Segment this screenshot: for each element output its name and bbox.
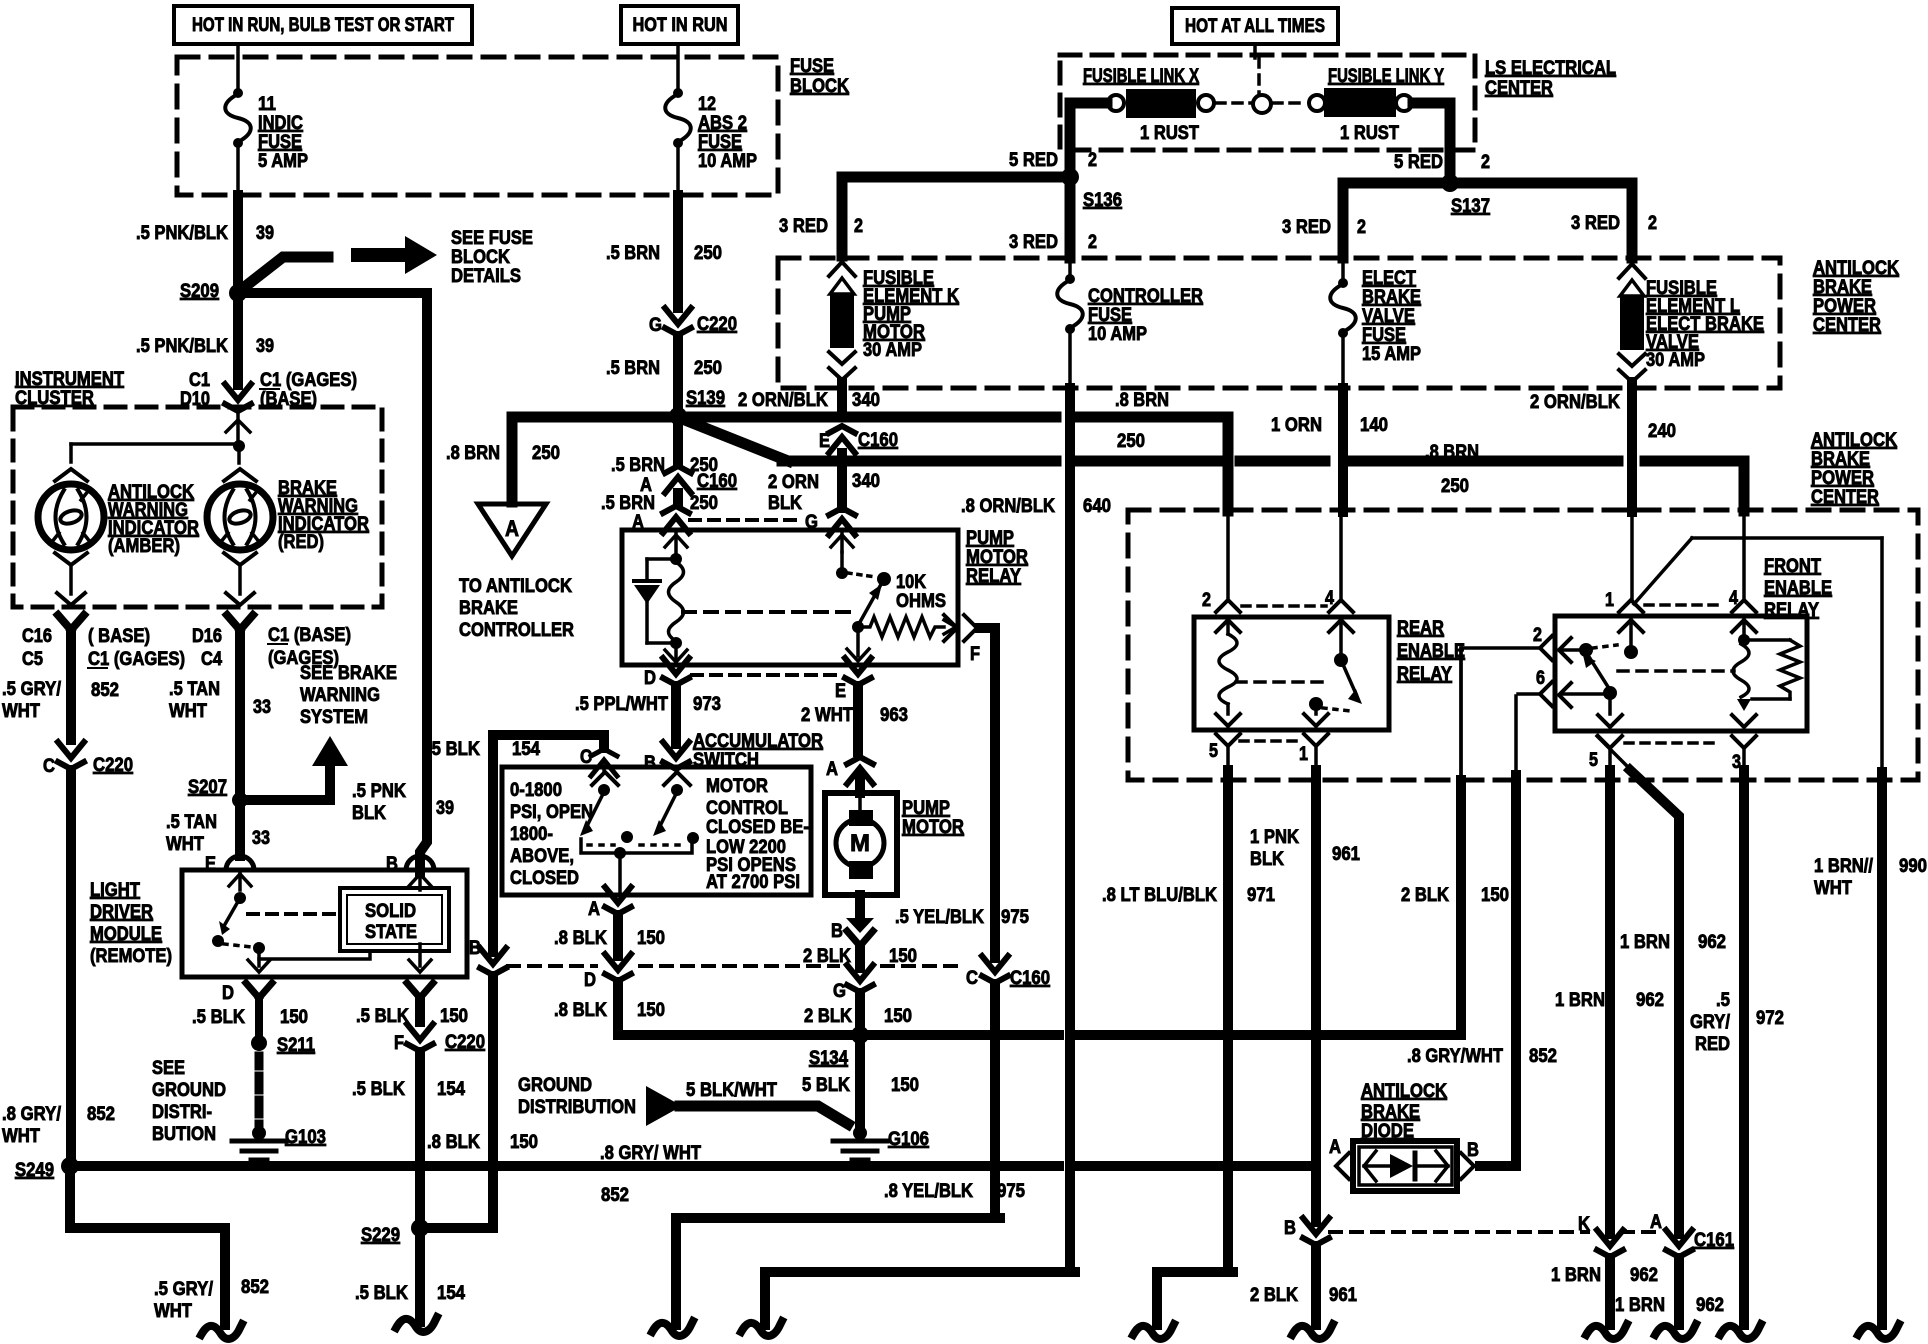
svg-text:2: 2 <box>1088 150 1097 171</box>
svg-text:1800-: 1800- <box>510 824 553 845</box>
rear relay pin 5 connector <box>1216 734 1240 746</box>
svg-text:E: E <box>819 431 830 452</box>
svg-text:M: M <box>850 830 870 857</box>
svg-text:C160: C160 <box>697 471 737 492</box>
svg-text:BRAKE: BRAKE <box>1362 287 1421 308</box>
svg-text:962: 962 <box>1630 1265 1658 1286</box>
svg-text:F: F <box>394 1033 404 1054</box>
rear relay pin 4 connector <box>1329 600 1353 612</box>
svg-text:962: 962 <box>1636 990 1664 1011</box>
dashed tie inside rear relay <box>1236 680 1330 684</box>
wire pin C into accumulator switch box <box>602 766 606 770</box>
svg-text:A: A <box>826 759 838 780</box>
diode connector A <box>1336 1153 1349 1179</box>
module pin B-side connector to wire 150 <box>407 983 433 998</box>
svg-text:WHT: WHT <box>166 834 204 855</box>
svg-text:G106: G106 <box>888 1129 929 1150</box>
svg-text:.5 BLK: .5 BLK <box>356 1006 409 1027</box>
svg-text:CENTER: CENTER <box>1813 315 1881 336</box>
LIGHT DRIVER MODULE box <box>182 870 467 977</box>
svg-text:FUSE: FUSE <box>1088 305 1132 326</box>
wire C1 feed split inside cluster <box>233 440 245 452</box>
wire 150 elbow up into right power center <box>1459 648 1463 782</box>
svg-text:3 RED: 3 RED <box>779 216 828 237</box>
svg-text:ABS 2: ABS 2 <box>698 113 747 134</box>
svg-text:A: A <box>632 512 644 533</box>
LS ELECTRICAL CENTER dashed box <box>1060 55 1475 150</box>
svg-text:B: B <box>1284 1218 1296 1239</box>
wire from HOT AT ALL TIMES into LS center <box>1253 44 1257 58</box>
svg-text:963: 963 <box>880 705 908 726</box>
svg-text:SWITCH: SWITCH <box>693 750 759 771</box>
svg-text:.5 PNK: .5 PNK <box>352 781 406 802</box>
rear relay pin 1 connector <box>1304 734 1328 746</box>
rear relay pin 2 connector <box>1216 600 1240 612</box>
svg-text:.8 GRY/: .8 GRY/ <box>2 1104 62 1125</box>
relay pin G sense branch with 10K OHMS potentiometer <box>840 534 844 552</box>
svg-text:ANTILOCK: ANTILOCK <box>1361 1081 1447 1102</box>
wire diagonal from S139 to .8 BRN 250 run <box>680 418 788 461</box>
wire C220-F to S229 (.5 BLK 154) <box>415 1052 425 1222</box>
svg-text:150: 150 <box>440 1006 468 1027</box>
svg-text:REAR: REAR <box>1397 618 1444 639</box>
svg-text:BRAKE: BRAKE <box>1813 277 1872 298</box>
wire S139 left to A triangle (.8 BRN 250) <box>512 417 671 502</box>
svg-text:154: 154 <box>437 1079 465 1100</box>
svg-text:250: 250 <box>690 493 718 514</box>
svg-text:990: 990 <box>1899 856 1927 877</box>
svg-text:.5 TAN: .5 TAN <box>166 812 217 833</box>
svg-text:1: 1 <box>1299 744 1308 765</box>
fusible element K PUMP MOTOR 30 AMP <box>829 262 855 276</box>
svg-text:975: 975 <box>997 1181 1025 1202</box>
svg-text:C16: C16 <box>22 626 52 647</box>
wire 39 from S209 elbow down to module pin B (.5 BLK) <box>420 298 427 872</box>
wire rear relay pin 5 down (1 PNK/BLK 971) <box>1226 746 1230 772</box>
wire 971 elbow to bottom hook <box>1157 1272 1233 1325</box>
svg-text:TO ANTILOCK: TO ANTILOCK <box>459 576 572 597</box>
svg-text:C220: C220 <box>93 755 133 776</box>
front relay pin 4 connector <box>1732 600 1756 612</box>
svg-text:6: 6 <box>1536 668 1545 689</box>
svg-text:2: 2 <box>1202 590 1211 611</box>
svg-text:SYSTEM: SYSTEM <box>300 707 368 728</box>
wire C160-E down to pump motor relay pin G (340) <box>837 453 847 508</box>
svg-text:.5 BLK: .5 BLK <box>352 1079 405 1100</box>
svg-text:BLOCK: BLOCK <box>790 76 849 97</box>
dashed tie pins D to E <box>692 673 840 677</box>
svg-text:RELAY: RELAY <box>1764 600 1819 621</box>
svg-text:2: 2 <box>1481 152 1490 173</box>
svg-text:2 WHT: 2 WHT <box>801 705 853 726</box>
motor symbol M <box>858 796 862 812</box>
off-page triangle A TO ANTILOCK BRAKE CONTROLLER <box>478 504 546 556</box>
accumulator pin B connector <box>663 742 689 758</box>
svg-text:250: 250 <box>1117 431 1145 452</box>
svg-text:C1 (GAGES): C1 (GAGES) <box>88 649 185 670</box>
brake warning indicator lamp (red) <box>224 469 256 481</box>
svg-text:C5: C5 <box>22 649 43 670</box>
antilock warning indicator lamp (amber) <box>55 469 87 481</box>
wire S137 right-down to fusible element L (3 RED 2) <box>1458 183 1632 258</box>
svg-text:VALVE: VALVE <box>1362 306 1415 327</box>
svg-text:C160: C160 <box>1010 968 1050 989</box>
svg-text:3 RED: 3 RED <box>1282 217 1331 238</box>
svg-text:C: C <box>966 968 978 989</box>
wire .8 GRY/WHT 852 long run S249 to diode A <box>79 1161 411 1171</box>
svg-text:S209: S209 <box>180 281 219 302</box>
fuse block dashed box <box>177 57 778 195</box>
wire S139 right along 2 ORN/BLK 340 to elbow <box>686 412 1056 423</box>
wire 990 down to bottom hook (1 BRN//WHT 990) <box>1877 772 1887 1325</box>
wire pin F to C160-C and down (975) <box>980 628 995 958</box>
svg-text:FUSE: FUSE <box>258 132 302 153</box>
svg-text:RED: RED <box>1695 1034 1730 1055</box>
wire pin D to S211 (.5 BLK 150) <box>255 999 263 1036</box>
svg-text:2: 2 <box>1533 625 1542 646</box>
arrow SEE FUSE BLOCK DETAILS <box>351 248 405 262</box>
wire S136 down to controller fuse (3 RED 2) <box>1065 184 1076 258</box>
wire C160-G to S134 (2 BLK 150) <box>855 993 865 1028</box>
svg-text:(REMOTE): (REMOTE) <box>90 946 172 967</box>
svg-text:S229: S229 <box>361 1225 400 1246</box>
svg-text:30 AMP: 30 AMP <box>863 340 922 361</box>
connector C1 into instrument cluster <box>225 384 251 400</box>
svg-text:4: 4 <box>1729 588 1738 609</box>
front relay coil and resistor <box>1732 620 1756 632</box>
svg-text:WHT: WHT <box>2 1126 40 1147</box>
svg-text:.5 YEL/BLK: .5 YEL/BLK <box>895 907 984 928</box>
svg-text:33: 33 <box>253 697 271 718</box>
connector D16/C4 below cluster <box>227 615 253 630</box>
svg-text:RELAY: RELAY <box>1397 664 1452 685</box>
svg-text:PSI, OPEN: PSI, OPEN <box>510 802 593 823</box>
svg-text:154: 154 <box>512 739 540 760</box>
svg-text:ANTILOCK: ANTILOCK <box>1811 430 1897 451</box>
svg-text:.5 TAN: .5 TAN <box>169 679 220 700</box>
svg-text:150: 150 <box>884 1006 912 1027</box>
wire LS center left output to S136 (5 RED 2) <box>1070 103 1107 170</box>
wire S249 jog to bottom hook (.5 GRY/WHT 852) <box>70 1173 225 1325</box>
svg-text:GRY/: GRY/ <box>1690 1012 1731 1033</box>
svg-text:1 RUST: 1 RUST <box>1340 123 1399 144</box>
svg-text:CONTROLLER: CONTROLLER <box>459 620 574 641</box>
svg-text:2: 2 <box>1088 232 1097 253</box>
svg-text:S139: S139 <box>686 388 725 409</box>
accumulator switch common bar to pin A <box>581 839 692 853</box>
wire 640 elbow to bottom hook <box>765 1272 1075 1325</box>
dashed tie relay pins A to G <box>690 518 800 522</box>
svg-text:852: 852 <box>91 680 119 701</box>
svg-text:140: 140 <box>1360 415 1388 436</box>
svg-text:.8 BLK: .8 BLK <box>554 1000 607 1021</box>
wire wiper down to pin E <box>856 630 860 656</box>
elect brake valve fuse 15 AMP <box>1341 258 1345 282</box>
svg-text:BRAKE: BRAKE <box>459 598 518 619</box>
svg-text:10K: 10K <box>896 572 926 593</box>
module switch internals <box>238 874 242 890</box>
svg-text:1 BRN: 1 BRN <box>1620 932 1670 953</box>
svg-text:D: D <box>222 983 234 1004</box>
svg-text:2 BLK: 2 BLK <box>804 1006 852 1027</box>
relay pin G connector <box>829 508 855 515</box>
svg-text:3 RED: 3 RED <box>1009 232 1058 253</box>
svg-text:.5 BLK: .5 BLK <box>427 739 480 760</box>
svg-text:LS ELECTRICAL: LS ELECTRICAL <box>1485 58 1616 79</box>
front relay pin 6 connector <box>1540 682 1552 706</box>
svg-text:.5 BRN: .5 BRN <box>606 358 660 379</box>
resistor 10K OHMS <box>864 617 944 637</box>
wire S134 ground run left portion (from accumulator A elbow) <box>618 1026 855 1035</box>
svg-text:E: E <box>835 681 846 702</box>
svg-text:250: 250 <box>694 243 722 264</box>
ANTILOCK BRAKE POWER CENTER dashed box (fuses) <box>778 258 1780 388</box>
svg-text:961: 961 <box>1329 1285 1357 1306</box>
wire pin A down (.8 BLK 150) <box>613 915 623 956</box>
wire S134 to ground G106 (5 BLK 150) <box>855 1042 865 1128</box>
svg-text:2 ORN/BLK: 2 ORN/BLK <box>1530 392 1620 413</box>
wire elect brake valve fuse output down (1 ORN 140) <box>1338 388 1348 512</box>
wire pump motor to pin B (.5 YEL/BLK 975) <box>855 895 865 920</box>
svg-text:SEE: SEE <box>152 1058 185 1079</box>
dashed tie to solid state block <box>248 912 338 916</box>
svg-text:ELECT: ELECT <box>1362 268 1416 289</box>
svg-text:971: 971 <box>1247 885 1275 906</box>
svg-text:ENABLE: ENABLE <box>1764 578 1832 599</box>
svg-text:PUMP: PUMP <box>902 798 950 819</box>
front relay pin 2 connector <box>1540 636 1552 660</box>
svg-text:5 RED: 5 RED <box>1394 152 1443 173</box>
rear relay coil branch <box>1216 620 1240 632</box>
svg-text:852: 852 <box>241 1277 269 1298</box>
front relay pin 1 connector <box>1619 600 1643 612</box>
svg-text:CONTROL: CONTROL <box>706 798 788 819</box>
svg-text:C1 (BASE): C1 (BASE) <box>268 625 351 646</box>
svg-text:C161: C161 <box>1694 1230 1734 1251</box>
svg-text:972: 972 <box>1756 1008 1784 1029</box>
thick dashed jog S207 to brake warning arrow <box>250 795 262 805</box>
svg-text:3 RED: 3 RED <box>1571 213 1620 234</box>
accumulator switch contact B <box>664 772 690 785</box>
wire module B-side down to F/C220 (.5 BLK 150) <box>415 998 425 1022</box>
svg-text:33: 33 <box>252 828 270 849</box>
diode connector B <box>1461 1153 1474 1179</box>
svg-text:.8 GRY/WHT: .8 GRY/WHT <box>1407 1046 1503 1067</box>
splice S137 <box>1441 174 1459 192</box>
svg-text:FUSE: FUSE <box>1362 325 1406 346</box>
dashed tie pins 5-1 <box>1240 739 1302 743</box>
svg-text:10 AMP: 10 AMP <box>1088 324 1147 345</box>
svg-text:BUTION: BUTION <box>152 1124 216 1145</box>
wire pin B to C160-G (2 BLK 150) <box>855 948 865 968</box>
dashed wire S211 to ground G103 <box>255 1056 264 1066</box>
wire .5 BLK 154 elbow to accumulator pin C <box>493 735 604 748</box>
wire C220-C to S249 (.8 GRY/WHT 852) <box>66 770 76 1158</box>
svg-text:SEE BRAKE: SEE BRAKE <box>300 663 397 684</box>
svg-text:BRAKE: BRAKE <box>1361 1102 1420 1123</box>
svg-text:FUSE: FUSE <box>790 56 834 77</box>
connector C160 pin C <box>982 956 1008 972</box>
svg-text:250: 250 <box>1441 476 1469 497</box>
wire C160-D to S134 line (.8 BLK 150) <box>613 982 623 1030</box>
relay diode <box>647 557 676 561</box>
svg-text:852: 852 <box>601 1185 629 1206</box>
wire 154 branch from accumulator C elbow down to S229 <box>488 740 498 952</box>
wire pin D to accumulator switch pin B (.5 PPL/WHT 973) <box>671 686 681 744</box>
accumulator switch contact C <box>592 772 618 785</box>
svg-text:39: 39 <box>436 798 454 819</box>
svg-text:961: 961 <box>1332 844 1360 865</box>
dashed connector line C160 (B-D-G-C) <box>508 964 596 968</box>
svg-text:12: 12 <box>698 94 716 115</box>
wire C16 to C220 (.5 GRY/WHT 852) <box>66 630 76 740</box>
svg-text:154: 154 <box>437 1283 465 1304</box>
accumulator pin A connector <box>605 887 631 903</box>
SOLID STATE block <box>340 888 449 951</box>
svg-text:CLOSED: CLOSED <box>510 868 579 889</box>
svg-text:INSTRUMENT: INSTRUMENT <box>15 369 124 390</box>
svg-text:250: 250 <box>694 358 722 379</box>
svg-text:0-1800: 0-1800 <box>510 780 562 801</box>
svg-text:SEE FUSE: SEE FUSE <box>451 228 533 249</box>
svg-text:(RED): (RED) <box>278 532 324 553</box>
svg-text:C220: C220 <box>697 314 737 335</box>
svg-text:.8 BRN: .8 BRN <box>446 443 500 464</box>
svg-text:2: 2 <box>854 216 863 237</box>
svg-text:2 BLK: 2 BLK <box>1401 885 1449 906</box>
PUMP MOTOR RELAY box <box>622 530 958 665</box>
wire fuse 12 down (.5 BRN 250) <box>676 146 680 195</box>
wire fusible element L output down (2 ORN/BLK 240) <box>1627 382 1637 512</box>
svg-text:S137: S137 <box>1451 196 1490 217</box>
dashed tie pins 5-3 <box>1625 741 1720 745</box>
svg-text:MOTOR: MOTOR <box>902 817 964 838</box>
svg-text:.5 BRN: .5 BRN <box>611 455 665 476</box>
diode box and symbol <box>1353 1141 1457 1191</box>
svg-text:CLOSED BE-: CLOSED BE- <box>706 817 809 838</box>
svg-text:B: B <box>831 921 843 942</box>
svg-text:S136: S136 <box>1083 190 1122 211</box>
svg-text:D: D <box>584 970 596 991</box>
wire S134 line to rear power center right elbow (150) <box>866 1030 988 1040</box>
svg-text:240: 240 <box>1648 421 1676 442</box>
svg-text:( BASE): ( BASE) <box>88 626 150 647</box>
diagonal + 990 run from front relay pin 1 <box>1634 538 1692 604</box>
svg-text:C220: C220 <box>445 1032 485 1053</box>
wire LS center right output to S137 (5 RED 2) <box>1413 103 1450 176</box>
svg-text:A: A <box>1329 1137 1341 1158</box>
svg-text:HOT AT ALL TIMES: HOT AT ALL TIMES <box>1185 16 1325 37</box>
wire from HOT IN RUN box to fuse 12 <box>676 44 680 90</box>
pin E connector below relay <box>845 658 871 674</box>
accumulator switch dotted link <box>588 843 614 847</box>
svg-text:150: 150 <box>637 928 665 949</box>
svg-text:1 RUST: 1 RUST <box>1140 123 1199 144</box>
splice S136 <box>1061 168 1079 186</box>
relay coil branch (pin A to pin D) <box>674 534 678 552</box>
connector C16/C5 below cluster <box>58 615 84 630</box>
svg-text:5 RED: 5 RED <box>1009 150 1058 171</box>
dashed tie pins 1-4 <box>1645 603 1724 607</box>
svg-text:150: 150 <box>889 946 917 967</box>
light driver module pin E entry <box>226 856 254 870</box>
svg-text:1: 1 <box>1605 590 1614 611</box>
svg-text:973: 973 <box>693 694 721 715</box>
svg-text:(AMBER): (AMBER) <box>108 536 180 557</box>
svg-text:DRIVER: DRIVER <box>90 902 153 923</box>
svg-text:.5 GRY/: .5 GRY/ <box>154 1279 214 1300</box>
svg-text:BRAKE: BRAKE <box>1811 449 1870 470</box>
wire jog from S209 toward SEE FUSE BLOCK DETAILS arrow <box>242 257 328 289</box>
svg-text:S211: S211 <box>277 1035 315 1056</box>
svg-text:975: 975 <box>1001 907 1029 928</box>
wire .8 BRN 250 from controller wire to rear relay pin 2 elbow <box>1078 417 1228 511</box>
svg-text:BLK: BLK <box>352 803 386 824</box>
svg-text:150: 150 <box>637 1000 665 1021</box>
title box: HOT IN RUN <box>621 6 738 44</box>
connector C160 pin G <box>847 965 873 981</box>
wire C220-G to S139 (.5 BRN 250) <box>673 336 683 408</box>
svg-text:ENABLE: ENABLE <box>1397 641 1465 662</box>
wire pin E to pump motor (2 WHT 963) <box>853 686 863 752</box>
connector C220 pin F <box>407 1024 433 1040</box>
svg-text:10 AMP: 10 AMP <box>698 151 757 172</box>
wire controller fuse output down (.8 ORN/BLK 640) <box>1065 388 1075 1266</box>
svg-text:962: 962 <box>1698 932 1726 953</box>
svg-text:CENTER: CENTER <box>1811 487 1879 508</box>
svg-text:.8 BLK: .8 BLK <box>554 928 607 949</box>
ground G103 <box>252 1126 266 1140</box>
svg-text:250: 250 <box>532 443 560 464</box>
svg-text:CONTROLLER: CONTROLLER <box>1088 286 1203 307</box>
svg-text:BLK: BLK <box>768 493 802 514</box>
fusible element L ELECT BRAKE VALVE 30 AMP <box>1619 264 1645 278</box>
svg-text:POWER: POWER <box>1811 468 1874 489</box>
svg-text:LIGHT: LIGHT <box>90 880 140 901</box>
svg-text:.8 GRY/ WHT: .8 GRY/ WHT <box>600 1143 701 1164</box>
svg-text:150: 150 <box>280 1007 308 1028</box>
svg-text:ACCUMULATOR: ACCUMULATOR <box>693 731 823 752</box>
svg-text:.5 PNK/BLK: .5 PNK/BLK <box>136 336 228 357</box>
wire from HOT IN RUN BULB TEST box to fuse 11 <box>236 44 240 90</box>
svg-text:2 ORN/BLK: 2 ORN/BLK <box>738 390 828 411</box>
svg-text:.8 ORN/BLK: .8 ORN/BLK <box>961 496 1055 517</box>
svg-text:HOT IN RUN: HOT IN RUN <box>633 15 728 36</box>
svg-text:4: 4 <box>1325 588 1334 609</box>
svg-text:C160: C160 <box>858 430 898 451</box>
wire S209 to vertical wire 39/150 (right elbow) <box>246 293 427 300</box>
svg-text:5 AMP: 5 AMP <box>258 151 308 172</box>
svg-text:2 BLK: 2 BLK <box>1250 1285 1298 1306</box>
dashed link between fusible links with junction circle <box>1216 101 1252 105</box>
svg-text:PUMP: PUMP <box>966 528 1014 549</box>
svg-text:.8 BLK: .8 BLK <box>427 1132 480 1153</box>
svg-text:2: 2 <box>1648 213 1657 234</box>
svg-text:.8 BRN: .8 BRN <box>1115 390 1169 411</box>
wire .8 BRN 250 elbow down to front relay pin 4 <box>1645 461 1744 511</box>
wire C160-C down to 975 run (.8 YEL/BLK 975) <box>990 984 1000 1213</box>
svg-text:AT 2700 PSI: AT 2700 PSI <box>706 872 800 893</box>
svg-text:ABOVE,: ABOVE, <box>510 846 574 867</box>
wire fuse 11 to S209 (.5 PNK/BLK 39) <box>236 146 240 195</box>
svg-text:G103: G103 <box>285 1127 326 1148</box>
svg-text:962: 962 <box>1696 1295 1724 1316</box>
svg-text:852: 852 <box>87 1104 115 1125</box>
wire 140 into rear relay pin 4 <box>1339 513 1343 600</box>
svg-text:HOT IN RUN, BULB TEST OR START: HOT IN RUN, BULB TEST OR START <box>192 15 454 36</box>
lamp output arrows to cluster connectors <box>69 565 73 594</box>
svg-text:FRONT: FRONT <box>1764 556 1821 577</box>
